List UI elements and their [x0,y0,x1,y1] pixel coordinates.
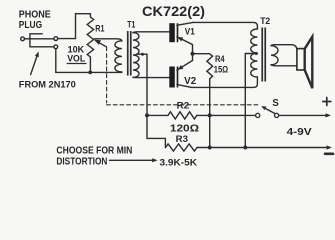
resistor R3 [166,144,198,151]
svg-text:PLUG: PLUG [19,20,43,31]
label CHOOSE FOR MIN DISTORTION [56,146,132,168]
negative rail to battery minus [197,147,328,149]
transistor V1 [169,22,193,53]
svg-text:15Ω: 15Ω [214,63,229,74]
svg-text:3.9K-5K: 3.9K-5K [160,157,198,168]
node T1 center tap [141,53,144,56]
transformer T1 secondary winding [133,33,139,78]
wire T1 center tap down to R2 left node [137,54,166,147]
wire common rail to T1 primary bottom [56,71,122,73]
wire T2 secondary to speaker [271,45,297,50]
transistor V2 [169,54,192,88]
transformer T1 primary winding [115,41,122,72]
battery minus sign [325,153,333,156]
wire plug sleeve down to common rail [55,49,57,73]
node T2 center tap [255,52,258,55]
svg-text:V1: V1 [185,25,195,36]
svg-text:R3: R3 [176,133,188,144]
label PHONE PLUG [19,10,51,31]
svg-text:4-9V: 4-9V [287,127,313,138]
svg-text:T1: T1 [127,19,135,29]
transformer T2 secondary winding [271,46,278,65]
node emitter junction [191,52,195,56]
node T2 tap on negative rail [243,146,247,150]
wire V2 collector to T2 primary bottom [192,77,258,87]
transformer T1 core [127,31,132,76]
resistor R4 with lead down to R2 right node [193,54,213,148]
arrow to 3.9K-5K [110,159,153,161]
node R2 left [145,113,149,117]
wire switch to battery plus [279,114,326,116]
svg-text:CK722(2): CK722(2) [142,4,205,19]
wire T2 center tap down to negative rail [245,54,257,148]
battery plus sign [323,98,331,106]
svg-text:R2: R2 [177,99,190,110]
dashed mechanical link R1 to switch S [107,47,260,105]
node R3 right / R4 junction [208,146,212,150]
svg-text:FROM 2N170: FROM 2N170 [19,78,76,89]
node R1 bottom junction [88,71,92,75]
svg-text:V2: V2 [184,76,197,87]
arrow FROM 2N170 [31,57,37,75]
switch S [256,106,279,117]
svg-text:R1: R1 [95,22,104,33]
svg-text:DISTORTION: DISTORTION [56,156,107,167]
wire T1 secondary bottom to V2 base [133,76,169,78]
transformer T2 core [261,28,266,82]
svg-text:CHOOSE FOR MIN: CHOOSE FOR MIN [56,146,132,157]
phone plug J1 [21,34,58,49]
label R4 15 ohm [214,53,229,74]
wire plug tip to R1 top [58,14,91,39]
svg-text:T2: T2 [260,15,270,26]
label 10K VOL [67,43,85,63]
wire V1 collector to T2 primary top [193,22,257,29]
speaker LS1 [297,37,312,88]
wiper of R1 with wire to T1 primary top [95,39,122,41]
resistor R1 (10K volume control) [87,14,93,73]
svg-text:VOL: VOL [67,53,85,64]
svg-text:R4: R4 [215,53,225,64]
wire T1 secondary top to V1 base [133,32,169,33]
svg-text:S: S [272,98,279,109]
resistor R2 [168,112,197,119]
transformer T2 primary winding [251,29,258,77]
node R2 right [208,113,212,117]
wire R2 right to switch [197,114,256,116]
wire R2 left lead [147,114,168,116]
